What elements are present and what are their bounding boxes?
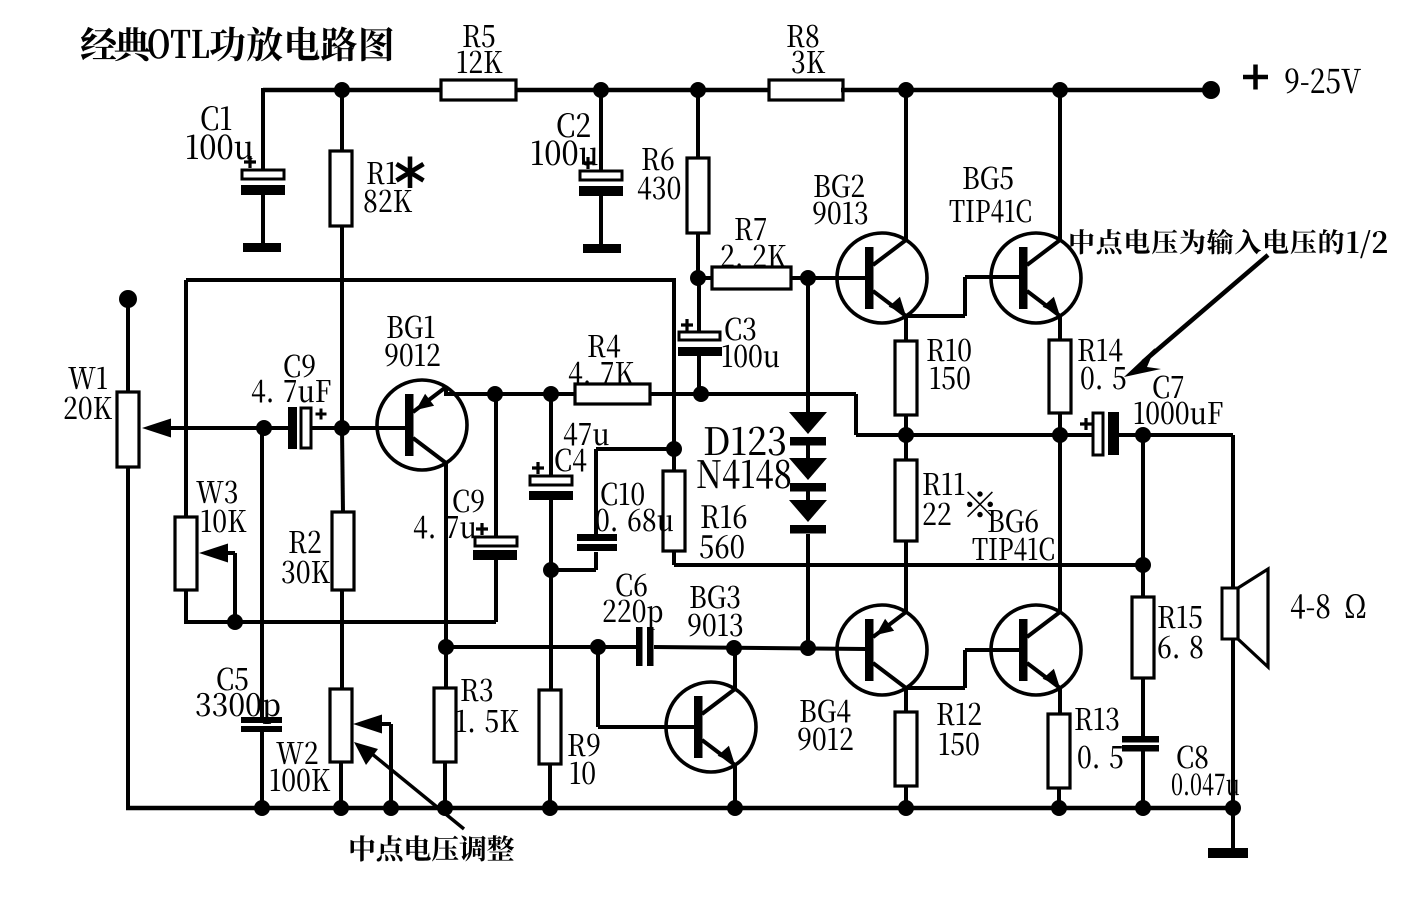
wire BG1 collector: [444, 463, 448, 648]
resistor R10 (150): [895, 339, 971, 415]
annotation arrow to C7: [1124, 255, 1268, 377]
wire R11 bottom to BG4 emitter: [904, 541, 908, 612]
capacitor C10 (0.68u): [577, 483, 673, 551]
junction R9/rail: [542, 800, 558, 816]
wire R2 bottom to W2: [340, 590, 344, 690]
junction C9b/line: [487, 386, 503, 402]
wire feedback left (to W3): [184, 280, 188, 518]
junction R6/R7/C3 node: [690, 270, 706, 286]
ground symbol: [1208, 848, 1248, 858]
potentiometer W3 (10K): [175, 481, 246, 590]
wire feedback right edge: [672, 280, 676, 450]
wire BG5 collector: [1058, 90, 1062, 240]
wire R10 bottom: [904, 415, 908, 436]
transistor BG4 (9012): [798, 605, 927, 751]
wire ground stub: [1231, 808, 1235, 849]
junction C3/R4 line: [693, 386, 709, 402]
wire R6 top: [696, 90, 700, 159]
wire BG5 base: [965, 275, 1021, 279]
wire BG2 emitter to R10: [904, 316, 908, 342]
wire W3 wiper link: [226, 553, 235, 622]
wire BG5 emitter to R14: [1058, 316, 1062, 341]
resistor R7 (2.2K): [712, 218, 791, 289]
wire R1 top: [340, 90, 344, 152]
wire R4 right segment: [650, 392, 856, 396]
wire C10 bottom link: [551, 552, 596, 570]
wire R3 top: [444, 647, 448, 689]
wire BG3 emitter: [733, 765, 737, 808]
junction speaker/rail: [1225, 800, 1241, 816]
wire W2 bottom: [339, 761, 343, 808]
annotation text 中点电压调整: [351, 835, 515, 861]
ground C2 return bar: [583, 244, 621, 253]
wire R7 left stub: [698, 276, 714, 280]
wire midpoint line: [674, 563, 1143, 567]
wire C2 bottom: [599, 196, 603, 244]
input terminal: [119, 290, 137, 308]
wire R12 bottom: [904, 786, 908, 808]
wire D2-D3: [806, 491, 810, 501]
resistor R13 (0.5): [1048, 708, 1122, 788]
wire BG6 base: [965, 648, 1023, 652]
junction C4/C10 node: [543, 562, 559, 578]
wire BG2 collector: [904, 90, 908, 240]
wire R14 bottom: [1058, 412, 1062, 436]
capacitor C8 (0.047u): [1122, 736, 1239, 796]
junction W3 wiper/bottom line: [227, 614, 243, 630]
wire top +V rail left segment: [263, 88, 443, 93]
junction BG3 collector/node B: [726, 640, 742, 656]
wire output line: [856, 433, 1095, 437]
wire BG3 collector riser: [733, 648, 737, 689]
junction BG3 base branch: [590, 639, 606, 655]
wire speaker bottom: [1231, 639, 1235, 808]
resistor R9 (10): [539, 690, 599, 784]
wire R6 bottom: [696, 233, 700, 278]
resistor R6 (430): [638, 148, 709, 233]
junction C8/rail: [1135, 800, 1151, 816]
wire diode string top: [806, 278, 810, 413]
transistor BG1 (9012): [377, 316, 467, 470]
wire input to W1: [126, 299, 130, 394]
capacitor C7 (1000uF): [1080, 376, 1222, 455]
wire BG6 emitter to R13: [1058, 688, 1062, 715]
wire C5 bottom: [260, 732, 264, 808]
wire W1 wiper to C9: [168, 426, 289, 430]
wire BG3 base drop: [598, 647, 696, 727]
wire output step down: [854, 394, 858, 435]
wire C5 top: [260, 428, 264, 718]
junction C5 branch: [256, 420, 272, 436]
resistor R8 (3K): [769, 25, 843, 100]
capacitor C9 (4.7uF) input coupling: [252, 355, 331, 449]
resistor R14 (0.5): [1049, 339, 1125, 413]
resistor R15 (6.8): [1132, 597, 1202, 678]
junction BG3 emitter/rail: [727, 800, 743, 816]
wire C3 bottom: [697, 356, 701, 394]
wire R7 right to BG2 base: [791, 276, 866, 280]
junction C2/top rail: [593, 82, 609, 98]
label D123 N4148: [697, 427, 790, 489]
wire R9 bottom: [548, 764, 552, 808]
wire C1 bottom: [261, 195, 265, 243]
wire D1-D2: [806, 445, 810, 459]
wire BG2 emitter to BG5 base (h): [904, 314, 965, 318]
wire R13 bottom: [1057, 788, 1061, 808]
wire C9b top riser: [494, 394, 498, 537]
junction midpoint/R15: [1135, 557, 1151, 573]
title text 经典OTL功放电路图: [81, 27, 393, 62]
wire ground rail: [126, 806, 1233, 811]
junction R1/top rail: [334, 82, 350, 98]
capacitor C1 (100u): [187, 106, 285, 195]
junction R3/rail: [437, 800, 453, 816]
wire top +V rail right segment: [841, 88, 1211, 93]
resistor R11 (22): [895, 460, 993, 541]
potentiometer W2 (100K): [271, 689, 382, 791]
resistor R5 (12K): [441, 25, 516, 100]
junction BG5 collector/top rail: [1052, 82, 1068, 98]
junction R13/rail: [1051, 800, 1067, 816]
junction R6/top rail: [690, 82, 706, 98]
wire R16 bottom stub: [672, 551, 676, 565]
wire speaker feed: [1231, 435, 1235, 590]
transistor BG5 (TIP41C): [950, 167, 1081, 323]
resistor R4 (4.7K): [569, 335, 650, 404]
wire feedback top: [186, 278, 676, 282]
annotation text 中点电压为输入电压的1/2: [1070, 229, 1386, 258]
junction R1-R2/base: [334, 420, 350, 436]
junction C4/line: [543, 386, 559, 402]
junction BG2 collector/top rail: [898, 82, 914, 98]
junction R7/diode string node: [800, 270, 816, 286]
capacitor C9 (4.7u) feedback: [414, 490, 517, 560]
speaker (4-8 ohm): [1222, 569, 1365, 667]
wire C3 top: [697, 278, 701, 333]
wire C4 bottom: [549, 500, 553, 691]
wire C9b bottom riser: [494, 560, 498, 622]
junction C7 right/output: [1135, 427, 1151, 443]
transistor BG6 (TIP41C): [973, 510, 1081, 695]
wire C10 top riser: [596, 449, 674, 534]
junction W2 wiper/rail: [383, 800, 399, 816]
wire C4 top: [549, 394, 553, 477]
power terminal +9-25V: [1202, 65, 1361, 100]
transistor BG2 (9013): [813, 175, 927, 323]
resistor R16 (560): [663, 471, 746, 558]
junction C5/rail: [254, 800, 270, 816]
wire R3 bottom: [443, 762, 447, 808]
wire BG4 collector node: [904, 688, 908, 713]
junction diode string/node B: [800, 640, 816, 656]
wire R16 top stub: [672, 449, 676, 472]
capacitor C5 (3300p): [196, 668, 282, 732]
capacitor C4 (47u): [529, 423, 609, 500]
annotation arrow to W2: [354, 742, 464, 829]
wire BG4-BG6 step (v): [963, 650, 967, 688]
wire node A line: [446, 645, 638, 649]
ground C1 return bar: [243, 243, 281, 252]
wire W2 wiper link: [380, 724, 391, 808]
diode D2 (1N4148): [789, 458, 827, 492]
resistor R3 (1.5K): [434, 679, 519, 762]
capacitor C6 (220p): [604, 574, 663, 666]
transistor BG3 (9013): [666, 586, 756, 772]
wire base node to R2: [342, 428, 343, 513]
wire C9 to BG1 base: [311, 426, 407, 430]
resistor R12 (150): [895, 703, 981, 786]
potentiometer W1 (20K): [65, 367, 171, 467]
junction R10-R11/output: [898, 427, 914, 443]
wire C8 bottom: [1141, 751, 1145, 808]
wire BG1 emitter line: [446, 392, 577, 396]
wire C2 top: [599, 90, 603, 171]
resistor R2 (30K): [282, 512, 354, 590]
diode D3 (1N4148): [789, 500, 827, 534]
wire bottom feedback line: [184, 620, 496, 624]
wire node B line: [654, 647, 866, 649]
wire R15 bottom: [1141, 678, 1145, 737]
junction BG1 collector/R3/C6 node: [438, 639, 454, 655]
wire BG4 to BG6 step (h): [904, 686, 965, 690]
junction R14-BG6/output: [1052, 427, 1068, 443]
wire C7 right to speaker: [1119, 433, 1233, 437]
wire R11 top: [904, 435, 908, 461]
junction C10/R16 node: [666, 441, 682, 457]
capacitor C2 (100u): [532, 113, 623, 196]
junction W2/rail: [333, 800, 349, 816]
wire diode string bottom: [806, 534, 810, 648]
capacitor C3 (100u): [678, 318, 779, 368]
wire R1 bottom to base node: [340, 226, 344, 428]
wire W1 bottom to ground rail: [126, 467, 130, 808]
wire BG6 collector riser: [1058, 435, 1062, 612]
wire W3 bottom: [184, 590, 188, 624]
junction R12/rail: [898, 800, 914, 816]
wire BG1 emitter stub: [444, 387, 448, 396]
wire top +V rail mid segment: [515, 88, 771, 93]
diode D1 (1N4148): [789, 412, 827, 446]
wire output to R15 riser: [1141, 435, 1145, 601]
wire BG2-BG5 step (v): [963, 277, 967, 316]
wire C1 top: [261, 88, 265, 170]
resistor R1 (82K): [330, 151, 424, 226]
